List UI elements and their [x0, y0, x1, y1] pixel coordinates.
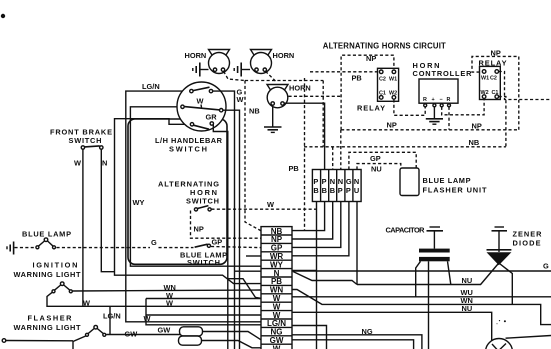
svg-text:SWITCH: SWITCH — [186, 197, 219, 206]
wire WN from ignition lamp to strip — [73, 290, 262, 291]
svg-text:ZENER: ZENER — [513, 229, 543, 238]
dashed controller R right down to NP trunk — [448, 107, 450, 130]
svg-text:ALTERNATING HORNS CIRCUIT: ALTERNATING HORNS CIRCUIT — [323, 42, 446, 51]
svg-text:BLUE LAMP: BLUE LAMP — [22, 230, 71, 239]
dashed: horn2 diagonal to horn3 — [266, 71, 278, 82]
dashed relay2 C2 to right edge — [499, 72, 551, 100]
svg-text:GW: GW — [158, 325, 171, 334]
svg-text:W2: W2 — [389, 91, 397, 97]
ground for horn 2 — [234, 63, 250, 77]
svg-text:B: B — [322, 186, 327, 195]
dashed relay2 C1 down to NB trunk — [499, 97, 506, 147]
wire W from front brake down — [82, 149, 84, 306]
dashed GP from cell5 to flasher unit — [349, 152, 416, 169]
svg-text:W1: W1 — [389, 77, 397, 83]
horn 2 — [251, 50, 295, 74]
switch arm bottom — [194, 125, 210, 129]
svg-text:GR: GR — [206, 113, 218, 122]
svg-text:NP: NP — [366, 54, 376, 63]
svg-text:W: W — [197, 97, 204, 106]
wire G right portion to edge — [292, 270, 551, 272]
capacitor legs — [416, 261, 421, 297]
block cell6 wire down to NU bus — [356, 202, 358, 285]
svg-text:G: G — [151, 238, 157, 247]
horn 1 — [185, 50, 230, 74]
wire WY from middle arm down to strip WY row — [130, 107, 261, 266]
alternator circle with X at bottom — [486, 339, 513, 349]
svg-text:GW: GW — [125, 330, 138, 339]
svg-text:HORN: HORN — [185, 51, 207, 60]
block cell wires down to strip rows — [292, 202, 325, 231]
svg-text:G: G — [543, 262, 549, 271]
svg-text:U: U — [354, 186, 359, 195]
ground for horn 1 — [193, 63, 209, 77]
svg-text:B: B — [313, 186, 318, 195]
svg-text:NP: NP — [472, 121, 482, 130]
svg-text:R: R — [447, 97, 451, 103]
zener diode — [487, 227, 543, 265]
svg-text:LG/N: LG/N — [142, 82, 160, 91]
NU lower bus line — [292, 312, 492, 342]
dashed: horn3 right terminal to NP vertical — [289, 95, 342, 97]
WU bus line — [292, 296, 551, 298]
dashed cell3 stub to NB trunk — [332, 147, 334, 170]
stray dot top-left — [1, 14, 5, 18]
wire N from front brake down to strip — [101, 149, 114, 272]
wire W short from above — [146, 299, 261, 325]
NB trunk dashed — [304, 146, 506, 148]
diagonal from strip N row to NU bus start — [293, 272, 357, 285]
wire N short feed into strip N row — [235, 270, 262, 272]
svg-text:C1: C1 — [492, 90, 499, 96]
svg-text:PB: PB — [352, 74, 362, 83]
svg-text:GP: GP — [212, 238, 223, 247]
dashed: horn1 to NB vertical — [224, 71, 245, 80]
wire stub into WR row — [246, 255, 261, 257]
svg-text:ALTERNATING: ALTERNATING — [158, 180, 219, 189]
svg-text:GP: GP — [370, 154, 381, 163]
blue lamp — [22, 230, 71, 249]
NU bus line — [357, 284, 481, 286]
svg-text:G: G — [346, 177, 352, 186]
dashed cell4 stub to NP trunk — [340, 130, 342, 170]
svg-text:NB: NB — [469, 138, 480, 147]
connector (inline) 1 — [180, 327, 203, 336]
wire from connector2 to strip — [202, 341, 262, 348]
svg-text:NU: NU — [462, 304, 473, 313]
terminal at left edge — [2, 339, 6, 343]
svg-text:PB: PB — [289, 164, 299, 173]
solid wire horn3 to connector block cell2 — [284, 103, 324, 169]
svg-text:N: N — [354, 177, 359, 186]
svg-text:W: W — [237, 95, 244, 104]
svg-text:NU: NU — [371, 164, 382, 173]
horn controller box — [413, 61, 473, 107]
svg-text:SWITCH: SWITCH — [69, 136, 102, 145]
dashed GP from blue lamp switch to strip — [211, 247, 261, 248]
wire W from switch down — [223, 110, 240, 349]
svg-text:N: N — [330, 177, 335, 186]
svg-text:C1: C1 — [379, 91, 386, 97]
svg-text:W: W — [74, 159, 81, 168]
svg-text:P: P — [313, 177, 318, 186]
svg-text:DIODE: DIODE — [513, 238, 541, 247]
L/H handlebar switch circle — [177, 82, 226, 131]
front brake switch — [50, 127, 112, 167]
switch arm top: blade and contacts — [193, 87, 210, 90]
dashed relay1 W2 to controller R — [394, 99, 425, 115]
dashed NP from switch to strip — [191, 211, 262, 239]
svg-text:C2: C2 — [490, 76, 497, 82]
svg-text:FLASHER: FLASHER — [28, 313, 73, 322]
dashed vertical x=304 down to W dashed line — [304, 78, 306, 231]
svg-text:W: W — [273, 344, 281, 349]
wire W bottom-arm right down the box edge — [213, 125, 228, 349]
svg-text:CONTROLLER: CONTROLLER — [413, 69, 473, 78]
zener legs — [481, 263, 499, 285]
svg-text:RELAY: RELAY — [357, 104, 385, 113]
blue lamp switch — [195, 244, 208, 247]
relay 1 box — [357, 68, 399, 112]
ground left of blue lamp — [7, 242, 14, 255]
svg-text:HORN: HORN — [273, 51, 295, 60]
wire from connector1 to strip GW row — [203, 332, 262, 340]
svg-text:NP: NP — [387, 120, 397, 129]
switch arm middle — [184, 107, 220, 110]
svg-text:−: − — [440, 97, 443, 103]
svg-text:CAPACITOR: CAPACITOR — [386, 225, 426, 234]
vertical x=428.5 — [428, 261, 430, 349]
svg-text:N: N — [338, 177, 343, 186]
NP trunk dashed — [341, 129, 519, 131]
svg-text:P: P — [346, 186, 351, 195]
dashed W line from switch right contact to block cell1 — [211, 208, 316, 210]
NG lines — [292, 335, 422, 349]
svg-text:NP: NP — [491, 49, 501, 58]
wire W from ignition lamp left down and right — [47, 292, 261, 306]
flasher warning light — [14, 313, 106, 336]
dashed NP right riser and relay2 box top — [472, 56, 519, 129]
svg-text:HORN: HORN — [289, 84, 311, 93]
dashed vertical x=323 to NB trunk — [322, 81, 324, 147]
svg-text:R: R — [423, 97, 427, 103]
svg-text:WARNING LIGHT: WARNING LIGHT — [14, 270, 81, 279]
svg-text:W: W — [83, 299, 90, 308]
svg-text:BLUE LAMP: BLUE LAMP — [423, 176, 471, 185]
dashed G line through blue lamp — [15, 247, 35, 249]
6-way connector block — [312, 170, 361, 202]
svg-text:NU: NU — [462, 276, 473, 285]
dashed PB line into relay1 C2 — [310, 71, 378, 73]
svg-text:N: N — [102, 159, 107, 168]
wire W bottom-arm left — [115, 119, 262, 284]
wire from flasher lamp left down — [73, 336, 86, 349]
wire W via diagonal into strip row9 — [228, 279, 261, 299]
capacitor — [386, 225, 450, 261]
connector (inline) 2 — [179, 336, 202, 345]
wire LG/N vertical — [126, 91, 261, 322]
svg-text:P: P — [338, 186, 343, 195]
svg-text:P: P — [322, 177, 327, 186]
ignition warning light — [14, 260, 81, 293]
L/H handlebar switch enclosure box — [128, 119, 227, 264]
dashed NU from cell6 to flasher unit — [357, 164, 401, 170]
blue lamp flasher unit box — [400, 168, 419, 196]
wire GW from flasher lamp right to connectors — [106, 334, 180, 336]
svg-text:W: W — [267, 200, 274, 209]
svg-text:C2: C2 — [379, 77, 386, 83]
horn 3 — [267, 84, 311, 108]
svg-text:NP: NP — [194, 225, 204, 234]
ground under controller — [426, 119, 443, 124]
svg-text:NB: NB — [249, 107, 260, 116]
svg-text:W1: W1 — [481, 76, 489, 82]
svg-text:+: + — [432, 97, 435, 103]
svg-text:WARNING LIGHT: WARNING LIGHT — [14, 323, 81, 332]
svg-text:W2: W2 — [481, 90, 489, 96]
controller + to ground — [433, 107, 435, 119]
svg-text:FLASHER UNIT: FLASHER UNIT — [423, 185, 487, 194]
dashed controller minus to relay2 W2 — [442, 99, 484, 115]
svg-text:NG: NG — [362, 327, 373, 336]
stray marks — [504, 320, 506, 322]
dashed horn1 line continues right to x=323 — [245, 80, 323, 82]
svg-text:W: W — [166, 299, 173, 308]
ground below horn 3 — [264, 105, 282, 132]
relay 2 box — [479, 58, 507, 99]
vertical connector strip — [261, 227, 292, 349]
svg-text:LG/N: LG/N — [103, 312, 121, 321]
svg-text:SWITCH: SWITCH — [187, 258, 220, 267]
WN bus line — [292, 290, 551, 325]
relay 1 dashed NP box top — [341, 55, 394, 130]
alternating horn switch contacts — [197, 206, 208, 209]
line from circle to right edge — [506, 336, 551, 339]
wire G from switch to right — [213, 91, 235, 349]
LG/N row exit right and down — [292, 326, 327, 349]
wire W feed down to flasher lamp — [109, 306, 111, 335]
svg-text:WY: WY — [133, 198, 145, 207]
svg-text:B: B — [330, 186, 335, 195]
